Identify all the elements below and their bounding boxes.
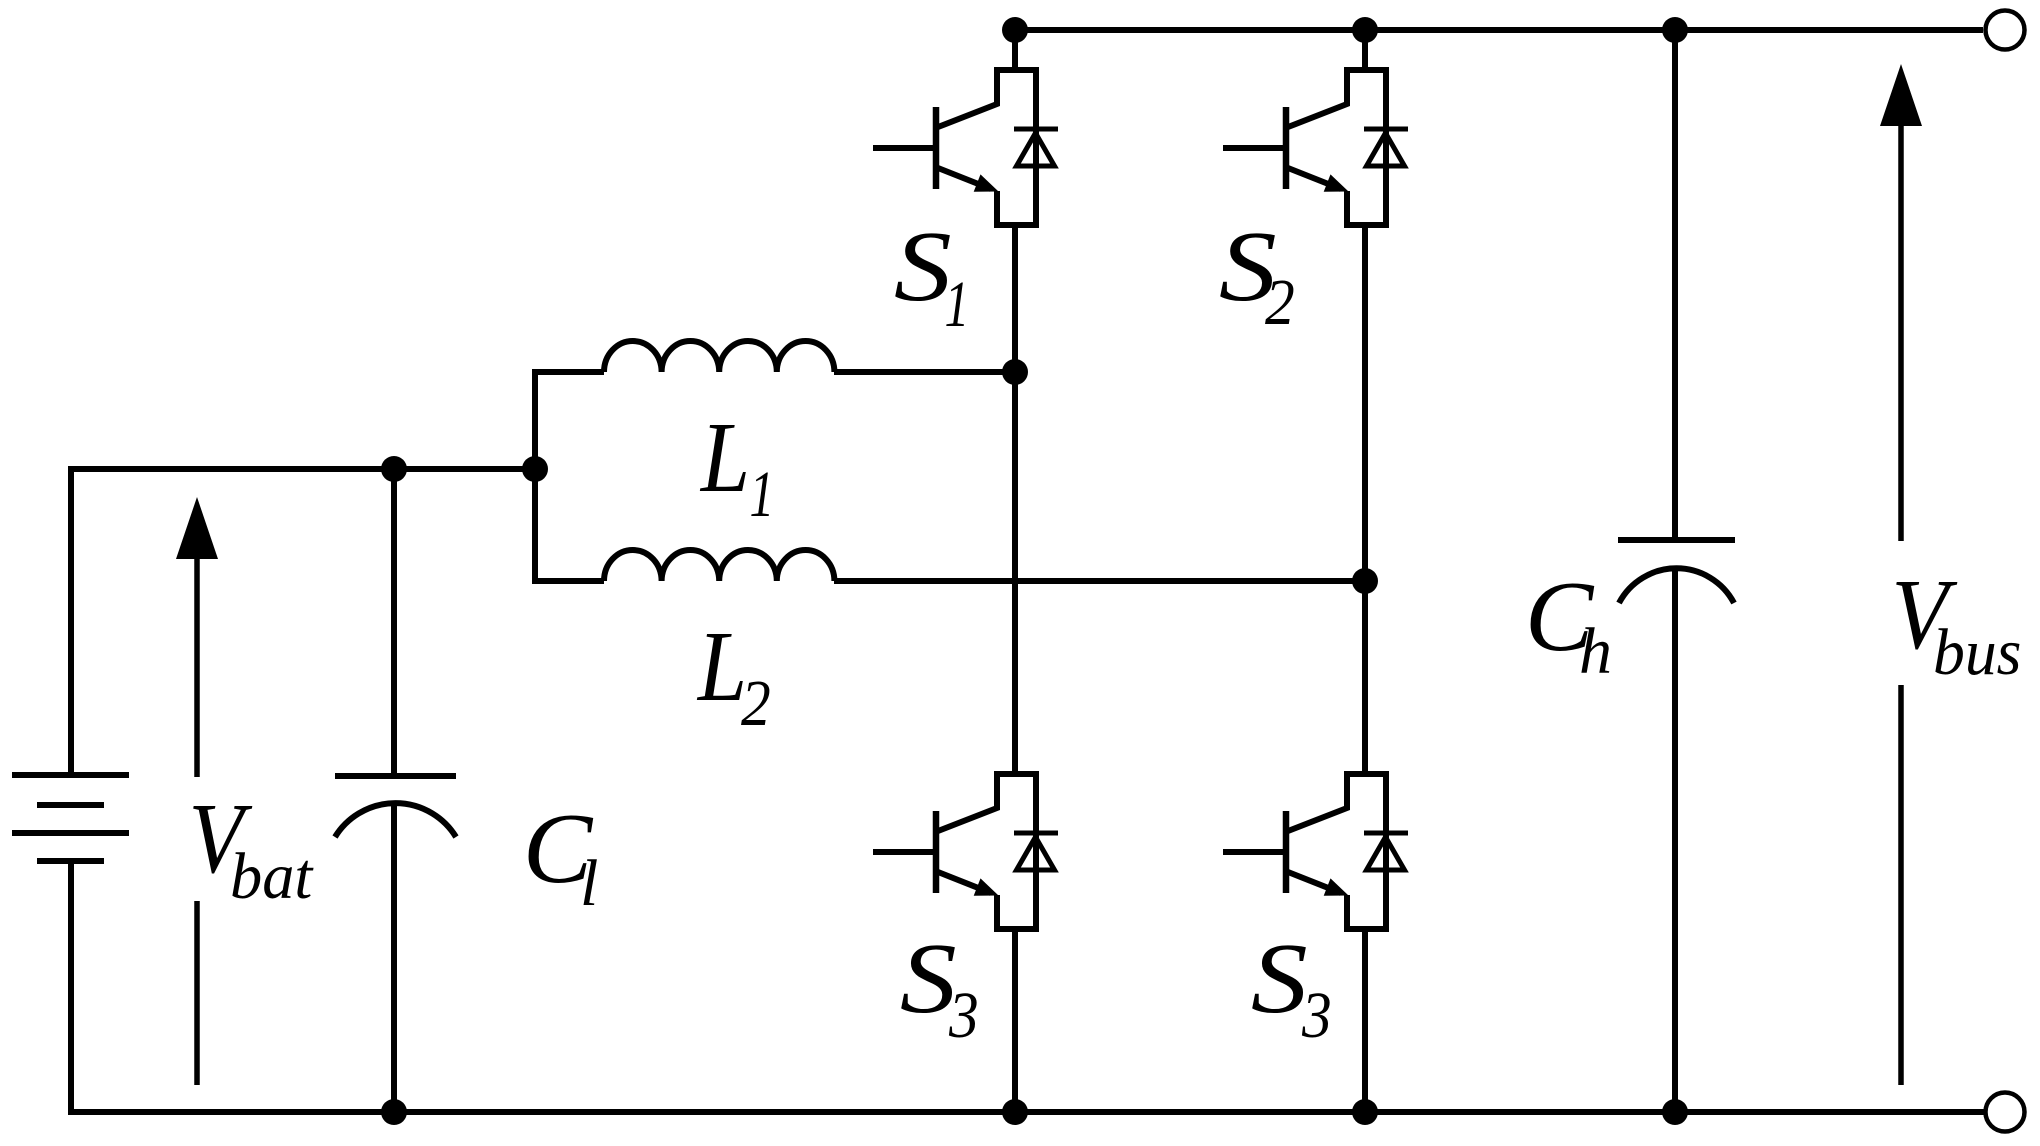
svg-text:1: 1 — [945, 267, 970, 341]
node top rail Ch — [1662, 17, 1688, 43]
node L2 to S2 midpoint — [1352, 568, 1378, 594]
wire S2 top lead — [1362, 30, 1368, 70]
wire S3 bottom lead — [1012, 929, 1018, 1112]
diode of S3 right — [1364, 833, 1408, 870]
svg-text:bat: bat — [230, 840, 314, 913]
wire S1 top lead — [1012, 30, 1018, 70]
svg-text:L: L — [699, 401, 750, 514]
node Cl bottom — [381, 1099, 407, 1125]
wire Cl top lead — [391, 469, 397, 776]
inductor L2 — [604, 550, 834, 581]
inductor L1 — [604, 341, 834, 372]
diode of S3 left — [1014, 833, 1058, 870]
svg-text:bus: bus — [1933, 616, 2021, 689]
diode of S2 — [1364, 129, 1408, 166]
wire Cl bottom lead — [391, 804, 397, 1112]
svg-text:2: 2 — [741, 666, 771, 740]
transistor S2 — [1223, 70, 1386, 225]
svg-text:L: L — [696, 610, 747, 723]
node L1 L2 split — [522, 456, 548, 482]
transistor S3 right — [1223, 774, 1386, 929]
arrow Vbat — [194, 556, 200, 1085]
node top rail S1 — [1002, 17, 1028, 43]
svg-text:3: 3 — [1301, 978, 1332, 1052]
svg-text:l: l — [580, 847, 598, 920]
svg-text:1: 1 — [750, 457, 775, 531]
diode of S1 — [1014, 129, 1058, 166]
wire S1 to S3 vertical — [1012, 225, 1018, 774]
svg-text:S: S — [894, 211, 952, 323]
capacitor Ch — [1618, 540, 1735, 603]
node S3b bottom — [1352, 1099, 1378, 1125]
arrow Vbus — [1898, 122, 1904, 1085]
svg-text:2: 2 — [1265, 265, 1295, 339]
svg-text:h: h — [1579, 615, 1612, 688]
wire S2 to S3b vertical — [1362, 225, 1368, 774]
wire bottom rail with battery bottom lead — [71, 863, 1984, 1112]
wire battery top lead and top-left horizontal — [71, 469, 535, 778]
wire L2 right lead — [834, 578, 1365, 584]
node L1 to S1 midpoint — [1002, 359, 1028, 385]
wire L1 left lead — [532, 369, 604, 375]
node top rail S2 — [1352, 17, 1378, 43]
wire Ch bottom lead — [1672, 568, 1678, 1112]
wire junction vertical between L1 and L2 — [532, 372, 538, 581]
wire S3b bottom lead — [1362, 929, 1368, 1112]
wire L2 left lead — [532, 578, 604, 584]
wire L1 right lead — [834, 369, 1015, 375]
transistor S1 — [873, 70, 1036, 225]
node Cl top junction — [381, 456, 407, 482]
terminal bottom right — [1986, 1093, 2025, 1132]
battery Vbat source — [12, 775, 129, 861]
svg-text:3: 3 — [948, 978, 979, 1052]
capacitor Cl — [335, 776, 456, 837]
terminal top right — [1986, 11, 2025, 50]
transistor S3 left — [873, 774, 1036, 929]
svg-text:S: S — [1251, 923, 1308, 1035]
node S3 bottom — [1002, 1099, 1028, 1125]
wire top rail — [1015, 27, 1983, 33]
node Ch bottom — [1662, 1099, 1688, 1125]
wire Ch top lead — [1672, 30, 1678, 540]
